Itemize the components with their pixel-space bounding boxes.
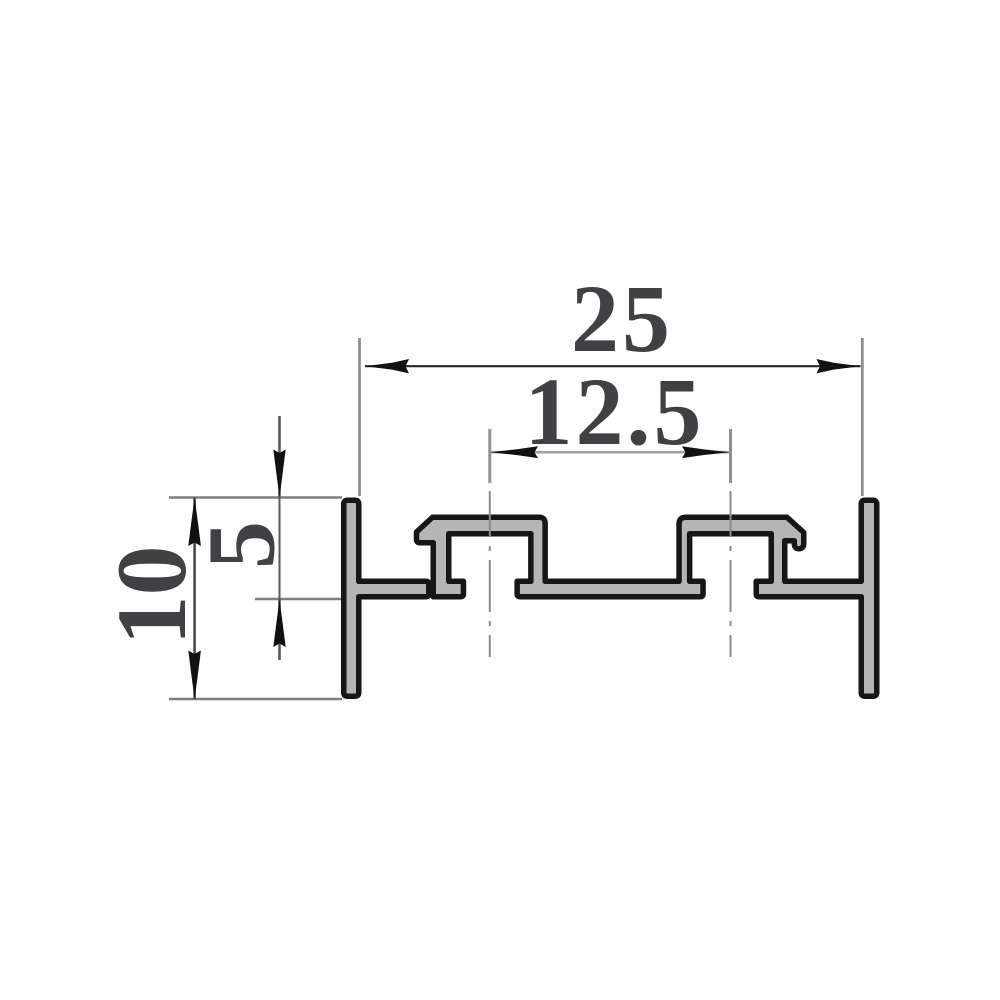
profile piece 2: main rail with two hook channels and right fin	[417, 500, 877, 696]
svg-text:25: 25	[571, 265, 673, 372]
dimension line 5 upper	[278, 416, 281, 498]
arrow 25 left	[365, 359, 409, 373]
dimension line 25	[365, 365, 861, 367]
extension line 12.5 left	[488, 429, 491, 483]
arrow 5 top (pointing down)	[273, 450, 285, 498]
centerline right slot	[730, 491, 732, 657]
extension line 12.5 right	[729, 429, 732, 483]
extension line middle (base bottom level y=599)	[255, 598, 342, 601]
dimension line 12.5	[490, 451, 729, 454]
arrow 10 bottom	[188, 651, 201, 700]
arrow 10 top	[188, 498, 201, 547]
extension line top (fin top level y=497.5)	[169, 496, 342, 499]
dimension line 5 lower	[278, 599, 281, 660]
centerline left slot	[489, 491, 491, 657]
extension line 25 right	[861, 338, 864, 496]
extension line 25 left	[358, 338, 361, 496]
svg-text:12.5: 12.5	[525, 358, 705, 465]
arrow 12.5 left	[490, 446, 538, 458]
svg-text:5: 5	[188, 521, 295, 569]
arrow 12.5 right	[682, 446, 730, 458]
arrow 25 right	[817, 359, 861, 373]
extension line bottom (fin bottom level y=699)	[169, 698, 342, 701]
arrow 5 bottom (pointing up)	[273, 599, 285, 647]
dimension line 5 middle	[279, 498, 281, 600]
dimension line 10	[193, 498, 196, 700]
profile piece 1: left fin with base web	[344, 500, 429, 696]
